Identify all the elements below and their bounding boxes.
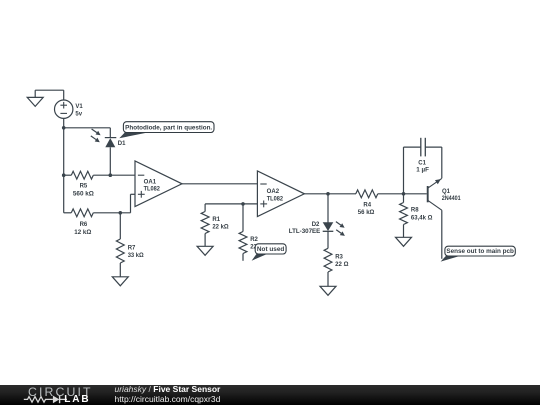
svg-text:D2: D2 bbox=[312, 222, 320, 228]
svg-text:R7: R7 bbox=[128, 246, 136, 252]
svg-text:TL082: TL082 bbox=[267, 197, 284, 203]
svg-text:Sense out to main pcb: Sense out to main pcb bbox=[446, 248, 514, 255]
svg-text:LTL-307EE: LTL-307EE bbox=[289, 229, 321, 235]
svg-text:OA2: OA2 bbox=[267, 189, 280, 195]
svg-text:Photodiode, part in question.: Photodiode, part in question. bbox=[125, 125, 212, 132]
svg-text:C1: C1 bbox=[418, 160, 426, 166]
svg-text:22 Ω: 22 Ω bbox=[335, 262, 348, 268]
svg-text:Not used: Not used bbox=[257, 246, 285, 253]
svg-text:12 kΩ: 12 kΩ bbox=[74, 230, 91, 236]
svg-text:V1: V1 bbox=[75, 104, 83, 110]
svg-text:1 µF: 1 µF bbox=[416, 167, 429, 173]
svg-text:TL082: TL082 bbox=[144, 187, 161, 193]
svg-text:R8: R8 bbox=[411, 208, 419, 214]
svg-text:R4: R4 bbox=[363, 203, 371, 209]
svg-text:2N4401: 2N4401 bbox=[442, 196, 462, 202]
svg-text:33 kΩ: 33 kΩ bbox=[128, 253, 144, 259]
svg-text:R3: R3 bbox=[335, 254, 343, 260]
svg-text:560 kΩ: 560 kΩ bbox=[73, 192, 94, 198]
svg-text:22 kΩ: 22 kΩ bbox=[212, 225, 228, 231]
svg-text:D1: D1 bbox=[118, 141, 126, 147]
svg-text:R2: R2 bbox=[250, 237, 258, 243]
svg-text:OA1: OA1 bbox=[144, 180, 157, 186]
svg-text:56 kΩ: 56 kΩ bbox=[358, 210, 375, 216]
svg-text:R1: R1 bbox=[212, 217, 220, 223]
svg-text:Q1: Q1 bbox=[442, 189, 451, 195]
svg-text:63,4k Ω: 63,4k Ω bbox=[411, 215, 433, 221]
svg-text:5v: 5v bbox=[75, 111, 82, 117]
svg-text:R6: R6 bbox=[80, 222, 88, 228]
svg-text:R5: R5 bbox=[80, 184, 88, 190]
